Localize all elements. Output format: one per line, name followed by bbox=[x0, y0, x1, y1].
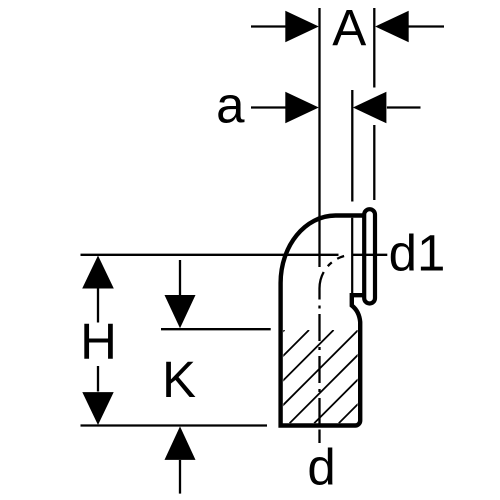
horizontal outlet axis / H top reference line bbox=[81, 254, 339, 256]
dimension H arrowhead down bbox=[82, 392, 113, 425]
bend axis dashed arc bbox=[319, 256, 344, 300]
dimension H arrowhead up bbox=[82, 256, 114, 289]
dimension H stem lower bbox=[97, 366, 99, 392]
dimension K stem upper bbox=[179, 260, 181, 295]
dimension A leader right bbox=[409, 25, 445, 27]
extension line flange face (lower segment) bbox=[373, 125, 375, 200]
dimension K arrowhead down bbox=[165, 295, 196, 328]
d1 axis line through flange bbox=[353, 254, 387, 256]
dimension K stem lower bbox=[179, 460, 181, 494]
dimension K reference line bbox=[161, 328, 271, 330]
vertical pipe axis (solid upper part, A/a reference) bbox=[318, 8, 320, 267]
elbow fitting body outline bbox=[281, 216, 366, 426]
dimension K arrowhead up bbox=[165, 426, 196, 460]
dimension a arrowhead right bbox=[353, 92, 387, 124]
bottom reference line (H/K baseline) bbox=[81, 424, 268, 426]
dimension a leader right bbox=[387, 106, 421, 108]
dimension H stem upper bbox=[97, 289, 99, 323]
dimension A arrowhead left bbox=[285, 11, 319, 43]
gasket flange at outlet bbox=[364, 209, 375, 303]
extension line socket face (a dimension) bbox=[351, 90, 353, 202]
section hatching bbox=[191, 330, 432, 423]
svg-text:a: a bbox=[216, 76, 245, 133]
svg-text:H: H bbox=[80, 313, 117, 370]
dimension a leader left bbox=[251, 106, 286, 108]
vertical pipe centre line (dash-dot lower part) bbox=[318, 306, 320, 444]
svg-text:d1: d1 bbox=[389, 224, 446, 281]
socket joint line bbox=[351, 218, 353, 294]
dimension A leader left bbox=[251, 25, 286, 27]
svg-text:K: K bbox=[162, 351, 196, 408]
extension line flange face (A dimension, upper segment) bbox=[373, 8, 375, 88]
svg-text:A: A bbox=[332, 0, 366, 57]
dimension a arrowhead left bbox=[285, 92, 319, 124]
dimension A arrowhead right bbox=[375, 11, 409, 43]
svg-text:d: d bbox=[307, 438, 335, 495]
